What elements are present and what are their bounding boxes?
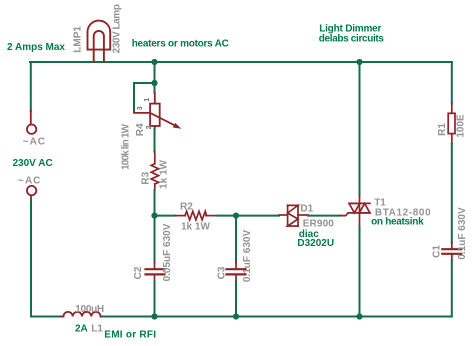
node junction C2 bottom (151, 313, 157, 319)
node junction C3 top (233, 213, 239, 219)
svg-text:L1: L1 (91, 324, 103, 335)
wire left vertical lower (30, 201, 32, 317)
svg-text:~: ~ (18, 175, 24, 186)
wire R4 feed (154, 62, 156, 83)
inductor L1 (61, 312, 103, 317)
svg-text:R2: R2 (180, 202, 193, 213)
wire bottom left (31, 316, 61, 318)
arrowhead R4 (173, 123, 182, 129)
svg-text:LMP1: LMP1 (72, 26, 83, 53)
ac terminal pin upper (30, 111, 32, 124)
svg-text:2: 2 (146, 125, 153, 129)
wire diac to triac gate (308, 215, 340, 217)
svg-text:1: 1 (144, 98, 151, 102)
svg-text:~: ~ (23, 136, 29, 147)
wire node to R2 (155, 215, 176, 217)
wire right vertical lower (451, 260, 453, 317)
svg-text:D3202U: D3202U (297, 238, 334, 249)
svg-text:1k 1W: 1k 1W (159, 159, 170, 188)
resistor R3 (151, 152, 158, 190)
svg-text:C1: C1 (432, 245, 443, 258)
wire node to diac (236, 215, 279, 217)
wire C2 upper (154, 216, 156, 262)
node junction top R4 (151, 59, 157, 65)
svg-text:230V AC: 230V AC (13, 158, 53, 169)
wire right vertical upper (451, 62, 453, 104)
wire left vertical upper (30, 62, 32, 111)
svg-text:100uH: 100uH (75, 304, 104, 315)
svg-text:2 Amps Max: 2 Amps Max (7, 42, 65, 53)
wire R3 to node (154, 190, 156, 216)
AC terminal circle lower (27, 186, 36, 195)
svg-text:0.1uF 630V: 0.1uF 630V (457, 207, 468, 260)
svg-text:C2: C2 (133, 266, 144, 279)
potentiometer R4 (134, 93, 178, 129)
svg-text:230V Lamp: 230V Lamp (112, 4, 123, 53)
ac terminal pin lower (30, 196, 32, 201)
resistor R1 (448, 104, 455, 144)
node junction triac top (356, 59, 362, 65)
svg-text:AC: AC (30, 136, 46, 147)
capacitor C3 (227, 262, 246, 281)
wire triac branch lower (359, 227, 361, 317)
node junction C3 bottom (233, 313, 239, 319)
svg-text:3: 3 (137, 106, 144, 110)
triac T1 (340, 195, 370, 226)
wire bottom main (102, 316, 452, 318)
capacitor C1 (442, 243, 461, 260)
svg-text:0.05uF 630V: 0.05uF 630V (162, 223, 173, 281)
svg-text:0.1uF 630V: 0.1uF 630V (242, 230, 253, 283)
wire R4 to R3 (154, 128, 156, 151)
wire R4 wiper loop (134, 83, 155, 112)
wire C3 upper (235, 216, 237, 262)
svg-text:1k 1W: 1k 1W (181, 222, 210, 233)
wire C2 lower (154, 281, 156, 317)
wire top horizontal (30, 61, 452, 63)
svg-text:on heatsink: on heatsink (371, 217, 424, 228)
svg-text:D1: D1 (300, 203, 313, 214)
svg-text:2A: 2A (75, 324, 88, 335)
lamp LMP1 (88, 21, 111, 62)
svg-text:delabs circuits: delabs circuits (319, 33, 385, 44)
resistor R2 (175, 211, 216, 220)
svg-text:ER900: ER900 (303, 219, 335, 230)
svg-text:R3: R3 (140, 171, 151, 184)
AC terminal circle upper (27, 125, 36, 134)
node junction triac bottom (356, 313, 362, 319)
wire R2 to node (217, 215, 236, 217)
svg-text:R4: R4 (135, 123, 146, 136)
wire triac branch upper (359, 62, 361, 195)
diac D1 (279, 205, 308, 226)
node junction R2 left (151, 213, 157, 219)
node junction R4 wiper (151, 80, 157, 86)
wire R4 pin1 (154, 83, 156, 93)
svg-text:100k lin 1W: 100k lin 1W (121, 123, 132, 170)
svg-text:AC: AC (25, 175, 41, 186)
svg-text:heaters or motors AC: heaters or motors AC (132, 38, 229, 49)
capacitor C2 (146, 262, 165, 281)
wire right vertical middle (451, 144, 453, 243)
svg-text:R1: R1 (437, 123, 448, 136)
wire C3 lower (235, 281, 237, 317)
svg-text:100E: 100E (456, 114, 467, 138)
svg-text:EMI or RFI: EMI or RFI (104, 329, 156, 340)
svg-text:C3: C3 (217, 266, 228, 279)
